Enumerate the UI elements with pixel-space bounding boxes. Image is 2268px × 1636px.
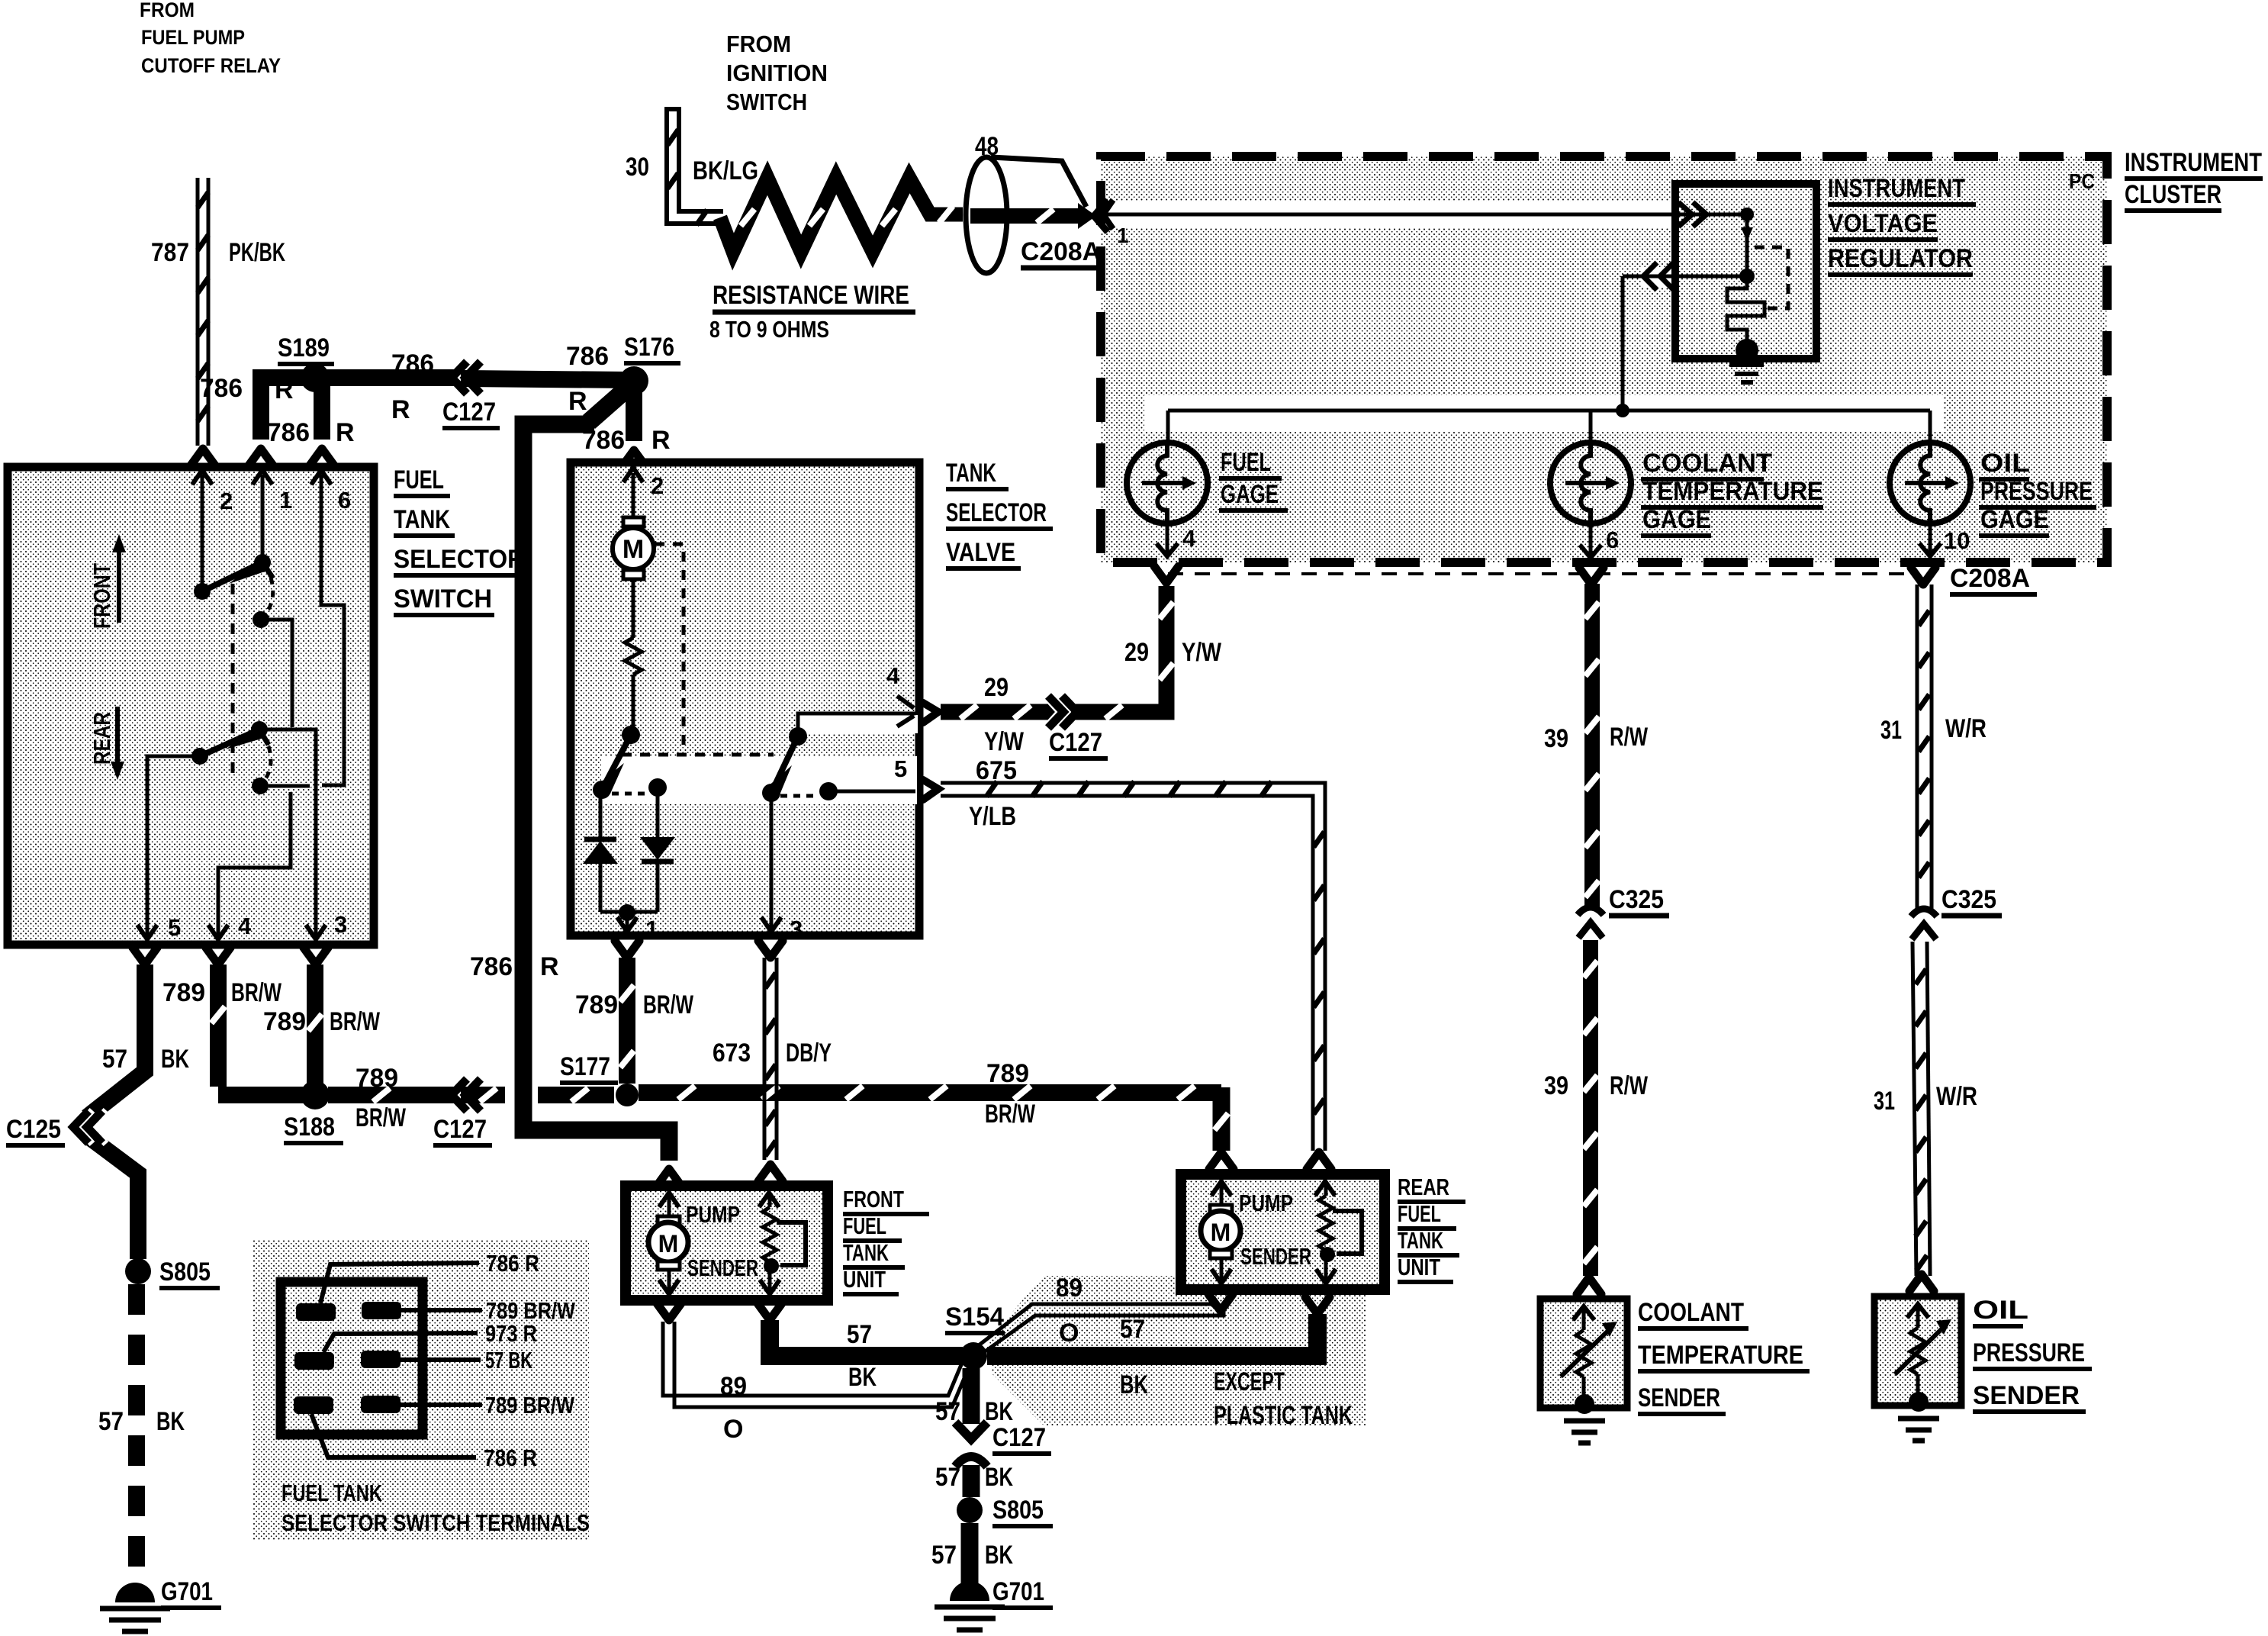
connector C325 left	[1578, 885, 1669, 938]
valve junction to terminal 1	[617, 904, 658, 942]
svg-text:GAGE: GAGE	[1642, 505, 1711, 534]
switch internal wire from terminal 2	[201, 475, 204, 588]
wire 786 R branch to terminal 1	[249, 378, 305, 465]
svg-text:S189: S189	[278, 333, 330, 362]
svg-text:TEMPERATURE: TEMPERATURE	[1642, 477, 1823, 506]
label 57 BK	[935, 1397, 1013, 1426]
svg-text:BK: BK	[848, 1363, 877, 1392]
svg-text:C127: C127	[1049, 728, 1102, 757]
label 57 BK	[931, 1541, 1013, 1570]
svg-text:6: 6	[338, 487, 351, 514]
wire 89 O S154 to rear pump	[979, 1294, 1233, 1352]
svg-text:57: 57	[847, 1320, 872, 1349]
splice S805	[125, 1258, 220, 1288]
svg-text:4: 4	[886, 662, 900, 689]
svg-text:R: R	[568, 387, 587, 416]
svg-text:C127: C127	[433, 1115, 487, 1144]
svg-text:675: 675	[976, 756, 1017, 785]
oil gage terminal 10	[1919, 523, 1970, 556]
label 57 BK	[935, 1463, 1013, 1492]
svg-text:TANK: TANK	[946, 459, 996, 488]
svg-text:786: 786	[391, 349, 434, 378]
svg-text:29: 29	[1124, 638, 1149, 667]
label 29 Y/W upper	[1124, 638, 1222, 667]
splice S189	[278, 333, 334, 392]
valve pole A contact left	[593, 781, 611, 799]
wire 57 BK from terminal 5	[87, 948, 157, 1259]
label COOLANT TEMPERATURE GAGE	[1641, 449, 1823, 536]
svg-text:M: M	[622, 535, 644, 564]
svg-text:C127: C127	[442, 398, 496, 427]
svg-text:GAGE: GAGE	[1980, 505, 2049, 534]
connector C208A harness line	[1168, 564, 2037, 594]
valve pole B contact right	[819, 782, 915, 800]
note FROM FUEL PUMP CUTOFF RELAY	[140, 0, 281, 77]
front pump motor	[648, 1193, 688, 1294]
label INSTRUMENT CLUSTER	[2125, 148, 2263, 211]
svg-text:COOLANT: COOLANT	[1638, 1298, 1744, 1327]
valve motor M	[613, 473, 654, 579]
svg-text:S176: S176	[624, 333, 674, 362]
svg-text:89: 89	[720, 1372, 747, 1401]
svg-text:BK: BK	[985, 1397, 1013, 1426]
svg-text:FUEL PUMP: FUEL PUMP	[141, 26, 245, 49]
except plastic tank shade	[989, 1276, 1366, 1425]
svg-text:C208A: C208A	[1950, 564, 2030, 593]
svg-text:39: 39	[1544, 1071, 1568, 1100]
svg-text:57: 57	[98, 1407, 124, 1436]
svg-text:789: 789	[355, 1064, 398, 1093]
switch terminal 2	[192, 470, 233, 514]
connector C127 third	[1049, 728, 1108, 758]
switch pole 2 arm	[200, 723, 269, 756]
svg-text:C208A: C208A	[1021, 237, 1101, 266]
svg-text:RESISTANCE WIRE: RESISTANCE WIRE	[713, 281, 909, 310]
svg-text:SWITCH: SWITCH	[726, 89, 807, 115]
switch pole 2 pivot	[191, 748, 208, 765]
wire 39 R/W C325 to coolant sender	[1577, 940, 1601, 1294]
svg-text:1: 1	[279, 487, 292, 514]
wire 57 BK S154 down	[963, 1368, 980, 1424]
svg-text:S154: S154	[945, 1303, 1004, 1332]
instrument cluster box dashed	[1101, 156, 2107, 562]
svg-text:BR/W: BR/W	[330, 1007, 381, 1036]
svg-text:6: 6	[1606, 527, 1619, 553]
svg-text:PLASTIC TANK: PLASTIC TANK	[1214, 1401, 1353, 1430]
wire 31 W/R C325 to oil sender	[1909, 942, 1934, 1291]
svg-text:REGULATOR: REGULATOR	[1828, 244, 1973, 273]
svg-text:FUEL: FUEL	[1398, 1200, 1441, 1227]
valve pole A travel dashed	[612, 792, 648, 796]
label TANK SELECTOR VALVE	[946, 459, 1053, 568]
valve pole A arm	[598, 735, 631, 794]
label 786 R	[267, 418, 355, 447]
wire 786 R S176 to valve terminal 2	[622, 385, 646, 467]
svg-text:UNIT: UNIT	[1398, 1254, 1440, 1280]
svg-text:SENDER: SENDER	[687, 1254, 758, 1281]
regulator internal wire down	[1741, 214, 1753, 273]
wire C208A input line to regulator	[1103, 200, 1747, 229]
svg-text:REAR: REAR	[1398, 1174, 1449, 1200]
svg-text:FROM: FROM	[140, 0, 195, 21]
ground G701 center	[935, 1577, 1053, 1630]
svg-text:Y/W: Y/W	[1182, 638, 1222, 667]
wire 789 BR/W S177 to rear pump	[639, 1086, 1234, 1169]
svg-text:89: 89	[1056, 1274, 1083, 1303]
wire 789 BR/W C127 to S177	[461, 1088, 614, 1102]
svg-text:BR/W: BR/W	[643, 990, 694, 1019]
label OIL PRESSURE GAGE	[1979, 449, 2096, 536]
svg-text:1: 1	[645, 916, 658, 942]
svg-text:3: 3	[790, 916, 803, 942]
svg-text:BK: BK	[156, 1407, 185, 1436]
tank selector valve box	[571, 462, 919, 936]
svg-text:789: 789	[263, 1007, 306, 1036]
label 789 BR/W	[575, 990, 694, 1019]
label 787 PK/BK	[151, 238, 285, 267]
svg-text:PUMP: PUMP	[1239, 1190, 1293, 1216]
switch internal wire from terminal 1	[261, 475, 265, 559]
wire 786 R S189 to C127	[261, 369, 458, 386]
svg-text:789: 789	[575, 990, 618, 1019]
svg-text:TANK: TANK	[843, 1239, 889, 1266]
switch wire contact b to pole 2 throw	[261, 620, 292, 727]
svg-text:57: 57	[931, 1541, 957, 1570]
legend pad 2 left	[294, 1333, 478, 1370]
splice S154	[945, 1303, 1005, 1370]
svg-text:787: 787	[151, 238, 189, 267]
label EXCEPT PLASTIC TANK	[1214, 1367, 1353, 1430]
svg-text:30: 30	[626, 153, 649, 182]
wire 786 R branch S189 to terminal 6	[310, 385, 334, 465]
legend pad 3 right	[361, 1396, 482, 1413]
wire 789 BR/W valve terminal 1 to S177	[615, 941, 639, 1084]
wire 675 Y/LB valve to rear sender	[923, 780, 1331, 1169]
switch pole 1 travel arc dashed	[265, 578, 273, 613]
label 29 Y/W	[984, 673, 1025, 756]
label 673 DB/Y	[713, 1039, 832, 1068]
label REAR FUEL TANK UNIT	[1398, 1174, 1465, 1282]
svg-text:SELECTOR: SELECTOR	[946, 498, 1047, 527]
svg-text:973 R: 973 R	[485, 1320, 537, 1347]
regulator node A	[1740, 208, 1754, 221]
svg-text:R: R	[540, 952, 559, 981]
switch terminal 3	[306, 911, 347, 939]
label 786	[566, 342, 609, 416]
svg-text:R: R	[336, 418, 355, 447]
rear fuel tank unit box	[1181, 1174, 1385, 1290]
valve pole B pivot to terminal 3	[761, 784, 803, 942]
svg-text:BK: BK	[161, 1045, 189, 1074]
svg-text:786: 786	[200, 374, 243, 403]
svg-text:31: 31	[1874, 1087, 1895, 1116]
svg-text:INSTRUMENT: INSTRUMENT	[2125, 148, 2262, 177]
wire 673 DB/Y valve terminal 3 to front sender	[758, 941, 783, 1181]
regulator heater element	[1727, 276, 1765, 342]
svg-text:789: 789	[986, 1059, 1029, 1088]
svg-text:5: 5	[168, 914, 181, 941]
svg-text:OIL: OIL	[1980, 449, 2030, 478]
wire 31 W/R oil gage to C325	[1911, 568, 1935, 912]
label REAR with arrow	[88, 707, 124, 780]
svg-text:786 R: 786 R	[484, 1444, 537, 1471]
svg-text:S188: S188	[284, 1113, 335, 1142]
svg-text:M: M	[658, 1230, 679, 1258]
splice S176	[619, 333, 680, 395]
valve terminal 2	[623, 468, 664, 499]
connector C127 fourth	[955, 1422, 1051, 1467]
switch pole 2 contact a	[251, 721, 268, 738]
label 786 R	[582, 426, 671, 455]
wire into C208A	[970, 203, 1096, 229]
cluster bus wire	[1168, 276, 1930, 417]
svg-text:S805: S805	[992, 1496, 1044, 1525]
svg-text:Y/LB: Y/LB	[969, 802, 1016, 831]
rear pump motor	[1201, 1181, 1240, 1283]
splice S805 center	[957, 1496, 1053, 1526]
valve pole A feed contact	[622, 726, 640, 744]
svg-text:Y/W: Y/W	[984, 727, 1025, 756]
label O 57	[1059, 1315, 1145, 1348]
wire 89 O front pump to S154	[657, 1303, 969, 1407]
switch wire pivot 2 to terminal 5	[147, 756, 200, 937]
svg-text:CUTOFF RELAY: CUTOFF RELAY	[141, 54, 281, 77]
svg-text:IGNITION: IGNITION	[726, 60, 828, 86]
svg-text:R: R	[275, 375, 294, 404]
coolant temperature sender box	[1540, 1299, 1627, 1414]
svg-text:SENDER: SENDER	[1973, 1381, 2080, 1410]
oil sender ground	[1898, 1419, 1939, 1441]
instrument voltage regulator box	[1675, 184, 1816, 359]
svg-text:INSTRUMENT: INSTRUMENT	[1828, 174, 1965, 203]
valve pole B travel dashed	[780, 794, 819, 798]
coolant sender ground	[1564, 1421, 1605, 1443]
svg-text:57 BK: 57 BK	[485, 1347, 532, 1374]
svg-text:FRONT: FRONT	[843, 1186, 904, 1213]
label 30 BK/LG	[626, 153, 758, 185]
label FRONT FUEL TANK UNIT	[843, 1186, 929, 1294]
fuel gage	[1127, 411, 1208, 523]
wire 57 BK S805 to G701	[961, 1523, 979, 1586]
front sender	[759, 1193, 806, 1294]
svg-text:PUMP: PUMP	[686, 1201, 740, 1228]
svg-text:BK: BK	[985, 1463, 1013, 1492]
svg-text:SELECTOR: SELECTOR	[394, 545, 525, 574]
svg-text:SENDER: SENDER	[1638, 1383, 1720, 1412]
switch terminal 5	[137, 914, 181, 941]
label 39 R/W lower	[1544, 1071, 1649, 1100]
svg-text:57: 57	[1120, 1315, 1145, 1344]
valve diode CR1	[583, 790, 627, 912]
resistance wire element	[720, 178, 963, 252]
label INSTRUMENT VOLTAGE REGULATOR	[1828, 174, 1976, 275]
svg-text:DB/Y: DB/Y	[786, 1039, 832, 1068]
legend box fuel tank selector switch terminals	[253, 1240, 589, 1540]
legend pad 1 right	[362, 1302, 482, 1319]
legend pad 2 right	[361, 1351, 481, 1368]
svg-text:W/R: W/R	[1936, 1082, 1977, 1111]
label 57 BK	[102, 1045, 189, 1074]
svg-text:29: 29	[984, 673, 1009, 702]
svg-text:CLUSTER: CLUSTER	[2125, 180, 2221, 209]
svg-text:10: 10	[1944, 527, 1970, 554]
svg-text:REAR: REAR	[88, 712, 115, 765]
svg-text:TANK: TANK	[1398, 1227, 1443, 1254]
valve pole B feed contact	[789, 727, 807, 746]
svg-text:FRONT: FRONT	[88, 563, 115, 629]
wire 39 R/W coolant gage to C325	[1579, 568, 1604, 910]
svg-text:4: 4	[1182, 525, 1196, 552]
connector C325 right	[1911, 885, 2002, 939]
label OIL PRESSURE SENDER	[1973, 1296, 2092, 1412]
svg-text:39: 39	[1544, 724, 1568, 753]
regulator node B	[1739, 269, 1755, 284]
valve diode CR2	[627, 787, 675, 912]
regulator lower input wire	[1623, 262, 1747, 290]
label FRONT with arrow	[88, 534, 126, 629]
svg-text:R/W: R/W	[1610, 723, 1649, 752]
label 786 R	[200, 374, 294, 404]
connector C127	[442, 361, 500, 428]
svg-text:2: 2	[220, 488, 233, 514]
svg-text:PRESSURE: PRESSURE	[1973, 1338, 2085, 1367]
svg-text:5: 5	[894, 755, 907, 782]
oil pressure sender box	[1874, 1296, 1961, 1412]
fuel gage terminal 4	[1157, 523, 1196, 556]
coolant gage terminal 6	[1580, 523, 1619, 558]
label 57 BK	[847, 1320, 877, 1392]
connector C208A top	[1021, 237, 1108, 268]
wire 789 BR/W from terminal 4	[206, 948, 305, 1095]
switch wire pole2 contact a to terminal 3	[259, 729, 316, 937]
wire 786 R S176 long branch to front pump	[523, 388, 681, 1186]
label 675 Y/LB	[969, 756, 1017, 831]
svg-text:786: 786	[267, 418, 310, 447]
svg-text:O: O	[1059, 1319, 1079, 1348]
svg-text:48: 48	[975, 132, 999, 161]
label 39 R/W	[1544, 723, 1649, 753]
svg-text:1: 1	[1117, 224, 1129, 247]
svg-text:FUEL: FUEL	[843, 1213, 886, 1239]
valve pole A contact right	[648, 778, 667, 797]
svg-text:R/W: R/W	[1610, 1071, 1649, 1100]
switch pole 2 travel arc dashed	[265, 746, 271, 780]
label FUEL TANK SELECTOR SWITCH	[394, 465, 528, 615]
label 31 W/R	[1880, 714, 1987, 745]
fuel tank selector switch box	[8, 467, 374, 945]
oil pressure gage	[1890, 411, 1970, 523]
connector C125	[6, 1110, 106, 1145]
svg-text:BR/W: BR/W	[231, 978, 282, 1007]
svg-text:UNIT: UNIT	[843, 1266, 886, 1293]
label 89 O	[720, 1372, 747, 1444]
svg-text:GAGE: GAGE	[1221, 480, 1279, 509]
svg-text:8 TO 9 OHMS: 8 TO 9 OHMS	[709, 316, 829, 343]
legend pad 3 left	[294, 1396, 476, 1457]
label 786 R	[391, 349, 434, 424]
label RESISTANCE WIRE 8 TO 9 OHMS	[709, 281, 915, 343]
switch pole 1 contact a	[254, 554, 271, 571]
svg-text:OIL: OIL	[1973, 1296, 2028, 1325]
svg-text:FUEL: FUEL	[394, 465, 444, 494]
svg-text:789: 789	[162, 978, 205, 1007]
svg-text:3: 3	[334, 911, 347, 938]
switch terminal 6	[311, 470, 351, 514]
splice S188	[284, 1080, 343, 1143]
svg-text:G701: G701	[161, 1577, 213, 1606]
svg-text:FROM: FROM	[726, 31, 791, 57]
label FUEL GAGE	[1219, 448, 1288, 510]
wire 57 BK dashed to G701	[128, 1284, 145, 1589]
svg-text:786: 786	[470, 952, 513, 981]
switch wire contact b branch to terminal 4	[218, 792, 291, 937]
switch terminal 1	[253, 470, 292, 514]
svg-text:BK: BK	[985, 1541, 1013, 1570]
wire 789 BR/W S188 to C127	[328, 1088, 458, 1102]
front fuel tank unit box	[626, 1186, 828, 1300]
svg-text:BR/W: BR/W	[355, 1103, 407, 1132]
label COOLANT TEMPERATURE SENDER	[1638, 1298, 1810, 1414]
svg-text:786: 786	[566, 342, 609, 371]
svg-text:C325: C325	[1941, 885, 1996, 914]
svg-text:S177: S177	[560, 1052, 610, 1081]
svg-text:786 R: 786 R	[486, 1250, 539, 1277]
svg-text:W/R: W/R	[1945, 714, 1987, 743]
svg-text:57: 57	[935, 1463, 960, 1492]
label 57 BK	[98, 1407, 185, 1436]
connector 48 bullet	[966, 132, 1086, 273]
regulator dashed contact box	[1755, 247, 1788, 308]
label 786 R	[470, 952, 559, 981]
wire 57 BK S154 to rear sender	[987, 1297, 1330, 1356]
label 789 BR/W	[162, 978, 282, 1007]
valve wire pole B to terminal 4	[798, 713, 915, 736]
wire 57 BK C127 to S805	[963, 1465, 980, 1497]
wire 787 PK/BK	[191, 178, 215, 465]
mechanical link dashed pole1-pole2	[231, 584, 235, 782]
svg-text:57: 57	[102, 1045, 127, 1074]
connector C208A pin 1	[1094, 200, 1129, 247]
switch pole 1 pivot	[194, 583, 211, 600]
label 31 W/R lower	[1874, 1082, 1977, 1116]
svg-text:BK/LG: BK/LG	[693, 156, 758, 185]
label 789	[355, 1064, 407, 1132]
svg-text:PK/BK: PK/BK	[229, 238, 285, 267]
valve dashed mechanical link	[622, 544, 774, 755]
svg-text:789 BR/W: 789 BR/W	[485, 1392, 575, 1419]
switch pole 1 arm	[202, 556, 273, 591]
svg-text:SELECTOR SWITCH TERMINALS: SELECTOR SWITCH TERMINALS	[281, 1509, 590, 1536]
svg-text:673: 673	[713, 1039, 751, 1068]
connector C127 second	[433, 1078, 492, 1145]
svg-text:BR/W: BR/W	[985, 1100, 1036, 1129]
regulator ground	[1729, 339, 1764, 382]
svg-text:PC: PC	[2069, 169, 2095, 193]
svg-text:4: 4	[238, 913, 252, 939]
coolant temperature gage	[1550, 411, 1631, 523]
svg-text:C325: C325	[1609, 885, 1664, 914]
svg-text:G701: G701	[992, 1577, 1044, 1606]
svg-text:R: R	[651, 426, 671, 455]
note FROM IGNITION SWITCH	[726, 31, 828, 115]
svg-text:C127: C127	[992, 1423, 1046, 1452]
svg-text:FUEL: FUEL	[1221, 448, 1271, 477]
svg-text:M: M	[1211, 1219, 1231, 1246]
svg-text:SWITCH: SWITCH	[394, 585, 492, 613]
label 789 BR/W	[985, 1059, 1036, 1129]
svg-text:S805: S805	[159, 1258, 211, 1287]
svg-text:SENDER: SENDER	[1240, 1243, 1311, 1270]
